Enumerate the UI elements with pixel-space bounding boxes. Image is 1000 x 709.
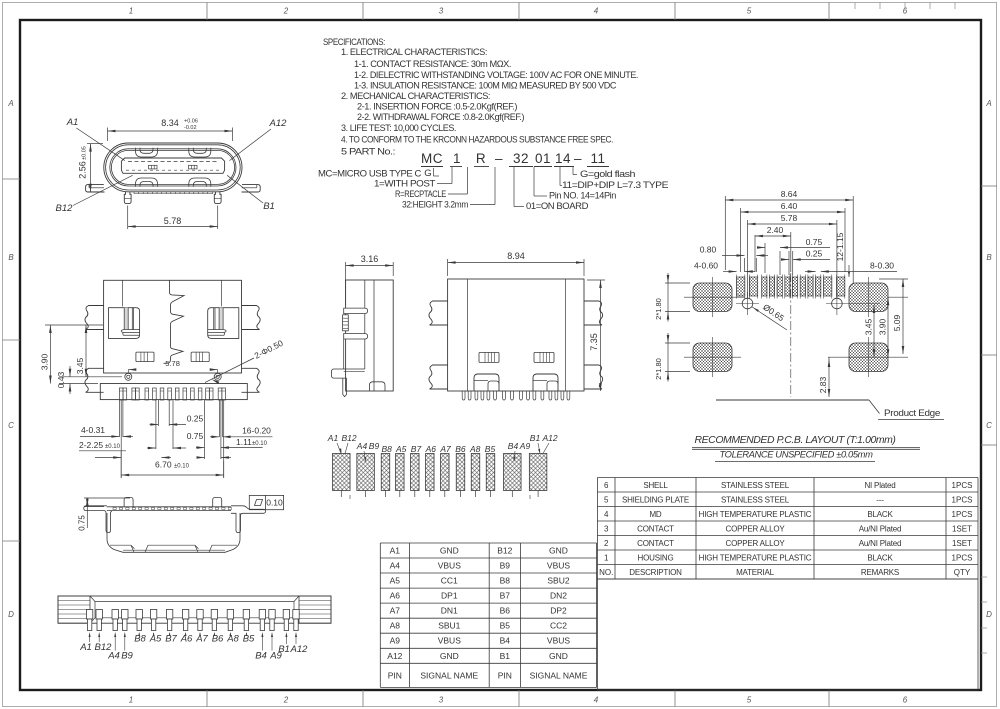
bar with contacts xyxy=(107,506,231,508)
svg-text:NO.: NO. xyxy=(599,568,613,577)
svg-text:B6: B6 xyxy=(455,444,466,454)
front view legs xyxy=(124,192,131,204)
svg-text:5: 5 xyxy=(604,495,609,504)
svg-text:B: B xyxy=(8,253,14,262)
svg-text:0.75: 0.75 xyxy=(806,237,823,247)
svg-text:11=DIP+DIP L=7.3 TYPE: 11=DIP+DIP L=7.3 TYPE xyxy=(562,180,668,190)
svg-text:A9: A9 xyxy=(390,636,401,646)
svg-text:SPECIFICATIONS:: SPECIFICATIONS: xyxy=(323,37,385,47)
svg-text:QTY: QTY xyxy=(954,568,971,577)
svg-text:A1: A1 xyxy=(79,642,92,653)
svg-text:A9: A9 xyxy=(519,441,531,451)
svg-text:0.25: 0.25 xyxy=(806,249,823,259)
back view legs xyxy=(474,374,499,391)
svg-text:A: A xyxy=(985,99,991,108)
top view latch right xyxy=(208,308,239,339)
svg-text:TOLERANCE UNSPECIFIED ±0.05m: TOLERANCE UNSPECIFIED ±0.05mm xyxy=(720,450,873,461)
svg-text:R=RECPTACLE: R=RECPTACLE xyxy=(395,189,446,199)
dim 0.75 xyxy=(148,447,156,450)
svg-text:SBU2: SBU2 xyxy=(547,576,569,586)
parts table xyxy=(597,477,978,479)
svg-text:0.75: 0.75 xyxy=(187,431,204,441)
front view top spring bumps xyxy=(136,148,158,157)
dim 7.35 xyxy=(587,279,605,281)
svg-text:8.34: 8.34 xyxy=(161,118,179,128)
svg-text:4-0.31: 4-0.31 xyxy=(81,425,105,435)
svg-text:DN1: DN1 xyxy=(441,606,458,616)
svg-text:NI Plated: NI Plated xyxy=(864,481,895,490)
dims 3.45 3.90 5.09 xyxy=(873,305,875,357)
top view left dims 3.90 3.45 0.43 xyxy=(45,324,103,326)
svg-text:2*1.80: 2*1.80 xyxy=(654,358,663,380)
empty title block box xyxy=(597,579,978,690)
svg-text:1=WITH POST: 1=WITH POST xyxy=(374,179,436,189)
svg-text:MC=MICRO USB TYPE C: MC=MICRO USB TYPE C xyxy=(318,169,422,179)
svg-text:0.80: 0.80 xyxy=(700,245,717,255)
svg-text:4: 4 xyxy=(594,696,599,705)
svg-text:B7: B7 xyxy=(411,444,422,454)
front view bottom serrations xyxy=(133,192,135,194)
svg-text:A8: A8 xyxy=(390,621,401,631)
pcb holes xyxy=(742,298,753,309)
svg-text:4: 4 xyxy=(604,510,609,519)
svg-text:B5: B5 xyxy=(500,621,511,631)
side view small body xyxy=(346,280,394,391)
svg-text:A4: A4 xyxy=(107,651,120,662)
bottom view inner outline xyxy=(90,596,299,623)
svg-text:CONTACT: CONTACT xyxy=(637,524,674,533)
svg-text:MATERIAL: MATERIAL xyxy=(736,568,775,577)
body bottom profile xyxy=(107,513,240,552)
svg-text:A5: A5 xyxy=(395,444,407,454)
svg-text:R: R xyxy=(476,151,486,166)
svg-text:2.56: 2.56 xyxy=(78,161,88,179)
svg-text:3: 3 xyxy=(439,696,444,705)
svg-text:6: 6 xyxy=(604,481,609,490)
svg-text:8.64: 8.64 xyxy=(781,189,798,199)
dim 5.78 pcb xyxy=(748,223,837,225)
svg-text:VBUS: VBUS xyxy=(438,561,461,571)
bottom side view xyxy=(124,497,133,507)
svg-text:3: 3 xyxy=(439,7,444,16)
svg-text:BLACK: BLACK xyxy=(867,510,893,519)
svg-text:Product Edge: Product Edge xyxy=(884,408,940,418)
svg-text:VBUS: VBUS xyxy=(438,636,461,646)
side view emi stack xyxy=(343,315,349,331)
svg-text:CONTACT: CONTACT xyxy=(637,539,674,548)
svg-text:B6: B6 xyxy=(212,634,224,645)
svg-text:CC2: CC2 xyxy=(550,621,567,631)
svg-text:B: B xyxy=(986,253,992,262)
side view pin 1 xyxy=(344,308,368,314)
svg-text:CC1: CC1 xyxy=(441,576,458,586)
svg-text:32:HEIGHT 3.2mm: 32:HEIGHT 3.2mm xyxy=(402,200,468,210)
side view dip pin tip xyxy=(343,391,347,397)
svg-text:DESCRIPTION: DESCRIPTION xyxy=(629,568,682,577)
top view latch left xyxy=(109,308,140,339)
top view right tabs xyxy=(242,306,261,330)
svg-text:A12: A12 xyxy=(387,651,402,661)
dim 0.25 xyxy=(150,423,158,426)
svg-text:7.35: 7.35 xyxy=(589,333,599,351)
svg-text:0.25: 0.25 xyxy=(187,414,204,424)
svg-text:1.11: 1.11 xyxy=(236,437,252,447)
top view center zigzag xyxy=(164,280,185,363)
svg-text:1SET: 1SET xyxy=(952,524,972,533)
svg-text:SHELL: SHELL xyxy=(643,481,668,490)
dimension 5.78 front xyxy=(127,206,129,230)
top view holes 2-phi0.50 xyxy=(125,373,132,380)
top view lower dims xyxy=(118,400,120,437)
svg-text:1. ELECTRICAL CHARACTERISTICS:: 1. ELECTRICAL CHARACTERISTICS: xyxy=(341,47,487,57)
svg-text:DP2: DP2 xyxy=(550,606,567,616)
svg-text:±0.10: ±0.10 xyxy=(105,444,121,450)
svg-text:–: – xyxy=(574,151,582,166)
svg-text:5.78: 5.78 xyxy=(781,213,798,223)
svg-text:RECOMMENDED P.C.B. LAYOUT: RECOMMENDED P.C.B. LAYOUT (T:1.00mm) xyxy=(695,435,896,446)
svg-text:11: 11 xyxy=(590,151,605,166)
svg-text:4. TO CONFORM TO THE KRCONN HA: 4. TO CONFORM TO THE KRCONN HAZARDOUS SU… xyxy=(341,135,613,145)
back view pins row xyxy=(462,391,465,400)
svg-text:3.90: 3.90 xyxy=(878,318,888,335)
svg-text:01: 01 xyxy=(535,151,551,166)
svg-text:1PCS: 1PCS xyxy=(952,553,973,562)
svg-text:2-2.25: 2-2.25 xyxy=(79,440,103,450)
bottom view end caps xyxy=(58,596,90,623)
left flange xyxy=(84,506,112,533)
svg-text:3.16: 3.16 xyxy=(361,254,379,264)
svg-text:B4: B4 xyxy=(500,636,511,646)
dimension 2.56 xyxy=(87,143,103,145)
svg-text:C: C xyxy=(8,421,14,430)
front view side flanges xyxy=(86,185,105,192)
phi 0.65 leader xyxy=(752,307,788,331)
svg-text:COPPER ALLOY: COPPER ALLOY xyxy=(726,524,786,533)
svg-text:MC: MC xyxy=(421,151,443,166)
svg-text:1PCS: 1PCS xyxy=(952,510,973,519)
svg-text:A: A xyxy=(7,99,13,108)
svg-text:B7: B7 xyxy=(165,634,177,645)
svg-text:PIN: PIN xyxy=(388,670,402,680)
svg-text:6: 6 xyxy=(903,696,908,705)
top view left tabs xyxy=(85,306,104,330)
svg-text:4: 4 xyxy=(594,7,599,16)
svg-text:HOUSING: HOUSING xyxy=(638,553,674,562)
svg-text:C: C xyxy=(986,421,992,430)
svg-text:2: 2 xyxy=(283,696,289,705)
svg-text:A12: A12 xyxy=(541,433,557,443)
svg-text:1: 1 xyxy=(129,7,133,16)
svg-text:B7: B7 xyxy=(500,591,511,601)
svg-text:A7: A7 xyxy=(390,606,401,616)
svg-text:MD: MD xyxy=(649,510,661,519)
svg-text:B1: B1 xyxy=(263,201,275,212)
pcb upper dims xyxy=(724,196,726,270)
svg-text:A6: A6 xyxy=(425,444,437,454)
svg-text:3. LIFE TEST: 10,000 CYCLES.: 3. LIFE TEST: 10,000 CYCLES. xyxy=(341,123,456,133)
svg-text:D: D xyxy=(8,610,14,619)
svg-text:REMARKS: REMARKS xyxy=(861,568,899,577)
product edge xyxy=(716,399,869,401)
svg-text:GND: GND xyxy=(440,546,459,556)
svg-text:-0.02: -0.02 xyxy=(184,125,197,131)
pin assignment table xyxy=(380,542,596,544)
svg-text:5: 5 xyxy=(747,696,752,705)
svg-text:HIGH TEMPERATURE PLASTIC: HIGH TEMPERATURE PLASTIC xyxy=(699,553,812,562)
svg-text:A5: A5 xyxy=(390,576,401,586)
front view tongue xyxy=(121,158,224,173)
svg-text:2*1.80: 2*1.80 xyxy=(654,298,663,320)
svg-text:3.45: 3.45 xyxy=(75,357,85,374)
svg-text:0.43: 0.43 xyxy=(56,371,66,388)
svg-text:B1: B1 xyxy=(530,433,541,443)
svg-text:12-1.15: 12-1.15 xyxy=(835,232,845,261)
svg-text:B9: B9 xyxy=(369,441,380,451)
svg-text:5 PART No.:: 5 PART No.: xyxy=(341,147,395,157)
svg-text:A4: A4 xyxy=(390,561,401,571)
svg-text:1: 1 xyxy=(453,151,461,166)
pad center cross lines xyxy=(684,296,745,298)
svg-text:D: D xyxy=(986,610,992,619)
svg-text:1-3. INSULATION RESISTANCE: 10: 1-3. INSULATION RESISTANCE: 100M MIΩ MEA… xyxy=(354,81,617,91)
svg-text:2-2. WITHDRAWAL FORCE :0.8-2.0: 2-2. WITHDRAWAL FORCE :0.8-2.0Kgf(REF.) xyxy=(357,112,524,122)
svg-text:2. MECHANICAL CHARACTERISTICS:: 2. MECHANICAL CHARACTERISTICS: xyxy=(341,91,490,101)
dim 6.40 xyxy=(741,211,846,213)
svg-text:–: – xyxy=(495,151,503,166)
svg-text:3: 3 xyxy=(604,524,609,533)
svg-text:B8: B8 xyxy=(381,444,392,454)
svg-text:B8: B8 xyxy=(134,634,146,645)
dim 0.75 xyxy=(84,497,130,499)
svg-text:SIGNAL NAME: SIGNAL NAME xyxy=(420,670,478,680)
svg-text:GND: GND xyxy=(440,651,459,661)
svg-text:A1: A1 xyxy=(390,546,401,556)
dim 0.75 pcb xyxy=(757,246,765,249)
top view body xyxy=(104,280,242,373)
svg-text:3.45: 3.45 xyxy=(864,318,874,335)
svg-text:1: 1 xyxy=(129,696,133,705)
svg-text:2.40: 2.40 xyxy=(767,225,784,235)
svg-text:5.78: 5.78 xyxy=(165,359,180,368)
back view side tabs xyxy=(429,301,448,325)
side view bottom notch xyxy=(369,382,385,391)
svg-text:6.70: 6.70 xyxy=(155,460,172,470)
svg-text:VBUS: VBUS xyxy=(547,636,570,646)
svg-text:G: G xyxy=(424,168,431,179)
svg-text:0.10: 0.10 xyxy=(266,498,283,508)
svg-text:Au/NI Plated: Au/NI Plated xyxy=(859,524,902,533)
svg-text:B9: B9 xyxy=(121,651,133,662)
svg-text:DN2: DN2 xyxy=(550,591,567,601)
top view dimples xyxy=(136,352,154,362)
svg-text:1-2. DIELECTRIC WITHSTANDING V: 1-2. DIELECTRIC WITHSTANDING VOLTAGE: 10… xyxy=(354,70,638,80)
svg-text:B6: B6 xyxy=(500,606,511,616)
svg-text:B4: B4 xyxy=(255,651,267,662)
dim 8.64 xyxy=(725,199,853,201)
svg-text:B12: B12 xyxy=(497,546,512,556)
svg-text:COPPER ALLOY: COPPER ALLOY xyxy=(726,539,786,548)
top view pins xyxy=(119,388,123,400)
svg-text:SBU1: SBU1 xyxy=(438,621,460,631)
dim 3.16 xyxy=(345,262,347,305)
svg-text:B4: B4 xyxy=(508,441,519,451)
svg-text:A1: A1 xyxy=(327,433,339,443)
dims 2x1.80 xyxy=(665,282,690,284)
svg-text:16-0.20: 16-0.20 xyxy=(242,426,271,436)
svg-text:2: 2 xyxy=(283,7,289,16)
svg-text:B8: B8 xyxy=(500,576,511,586)
svg-text:DP1: DP1 xyxy=(441,591,458,601)
pin cross-sections hatched xyxy=(333,454,351,491)
svg-text:B5: B5 xyxy=(485,444,496,454)
svg-text:A6: A6 xyxy=(180,634,193,645)
2-phi0.50 leader xyxy=(205,358,254,383)
svg-text:2: 2 xyxy=(604,539,609,548)
pcb solder pad row xyxy=(737,277,745,296)
svg-text:±0.10: ±0.10 xyxy=(174,464,190,470)
svg-text:0.75: 0.75 xyxy=(78,515,87,531)
svg-text:B12: B12 xyxy=(341,433,356,443)
svg-text:A4: A4 xyxy=(356,441,368,451)
flatness symbol box 0.10 xyxy=(249,495,283,509)
svg-text:A8: A8 xyxy=(469,444,481,454)
pcb centerline xyxy=(790,273,792,397)
svg-text:STAINLESS STEEL: STAINLESS STEEL xyxy=(721,495,790,504)
dimension 8.34 xyxy=(107,128,109,142)
svg-text:1SET: 1SET xyxy=(952,539,972,548)
dim 2.83 xyxy=(828,357,830,397)
svg-text:---: --- xyxy=(876,495,884,504)
svg-text:2.83: 2.83 xyxy=(818,376,828,393)
back view dimples xyxy=(479,352,499,362)
svg-text:B1: B1 xyxy=(500,651,511,661)
svg-text:GND: GND xyxy=(549,546,568,556)
svg-text:A1: A1 xyxy=(66,117,79,128)
pcb mounting pads xyxy=(693,283,732,312)
svg-text:A5: A5 xyxy=(149,634,162,645)
right flange xyxy=(231,506,266,533)
svg-text:2-1. INSERTION FORCE :0.5-2.0K: 2-1. INSERTION FORCE :0.5-2.0Kgf(REF.) xyxy=(357,102,517,112)
back view body xyxy=(448,279,584,391)
side view pin 2 xyxy=(344,334,368,340)
side view foot flange xyxy=(332,369,365,391)
svg-text:1-1. CONTACT RESISTANCE: 30m: 1-1. CONTACT RESISTANCE: 30m MΩX. xyxy=(354,59,511,69)
bottom view pins xyxy=(86,610,92,620)
svg-text:5.09: 5.09 xyxy=(892,314,902,331)
svg-text:BLACK: BLACK xyxy=(867,553,893,562)
dim 0.25 pcb xyxy=(781,258,789,261)
svg-text:Au/NI Plated: Au/NI Plated xyxy=(859,539,902,548)
svg-text:±0.10: ±0.10 xyxy=(252,441,268,447)
svg-text:B1: B1 xyxy=(278,644,290,655)
svg-text:A7: A7 xyxy=(439,444,451,454)
svg-text:A7: A7 xyxy=(195,634,208,645)
svg-text:8-0.30: 8-0.30 xyxy=(870,261,894,271)
svg-text:B5: B5 xyxy=(243,634,255,645)
svg-text:STAINLESS STEEL: STAINLESS STEEL xyxy=(721,481,790,490)
svg-text:1: 1 xyxy=(604,553,609,562)
svg-text:A6: A6 xyxy=(390,591,401,601)
svg-text:PIN: PIN xyxy=(498,670,512,680)
svg-text:GND: GND xyxy=(549,651,568,661)
svg-text:8.94: 8.94 xyxy=(507,251,525,261)
dim 8.94 xyxy=(447,259,449,276)
svg-text:6.40: 6.40 xyxy=(781,201,798,211)
svg-text:G=gold flash: G=gold flash xyxy=(580,169,635,179)
svg-text:5.78: 5.78 xyxy=(164,216,182,226)
front view connector shell xyxy=(104,143,242,192)
svg-text:VBUS: VBUS xyxy=(547,561,570,571)
svg-text:A8: A8 xyxy=(226,634,239,645)
svg-text:3.90: 3.90 xyxy=(40,353,50,370)
svg-text:1PCS: 1PCS xyxy=(952,481,973,490)
svg-text:B12: B12 xyxy=(56,203,74,214)
svg-text:01=ON BOARD: 01=ON BOARD xyxy=(526,201,589,211)
svg-text:+0.06: +0.06 xyxy=(184,119,198,125)
svg-text:1PCS: 1PCS xyxy=(952,495,973,504)
svg-text:±0.05: ±0.05 xyxy=(82,146,88,160)
svg-text:Pin NO. 14=14Pin: Pin NO. 14=14Pin xyxy=(549,191,616,201)
svg-text:SHIELDING PLATE: SHIELDING PLATE xyxy=(622,495,689,504)
svg-text:32: 32 xyxy=(513,151,529,166)
dim 2.40 xyxy=(755,235,791,237)
svg-text:A12: A12 xyxy=(290,644,309,655)
svg-text:4-0.60: 4-0.60 xyxy=(694,261,718,271)
svg-text:14: 14 xyxy=(555,151,571,166)
svg-text:HIGH TEMPERATURE PLASTIC: HIGH TEMPERATURE PLASTIC xyxy=(699,510,812,519)
svg-text:5: 5 xyxy=(747,7,752,16)
top view bottom plate xyxy=(100,384,247,400)
svg-text:B9: B9 xyxy=(500,561,511,571)
bottom view body xyxy=(58,596,331,623)
svg-text:SIGNAL NAME: SIGNAL NAME xyxy=(530,670,588,680)
front view bottom spring bumps xyxy=(136,178,158,187)
svg-text:A12: A12 xyxy=(269,118,288,129)
